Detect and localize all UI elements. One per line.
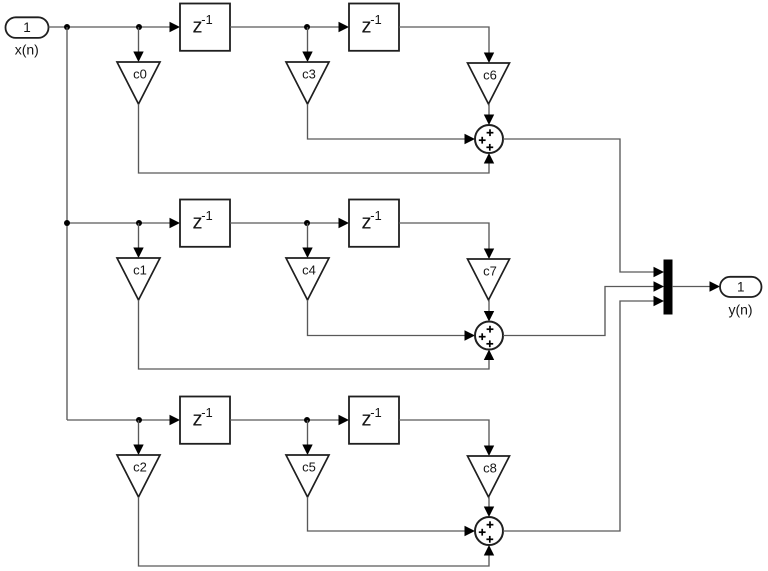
wire gain c1 to sum bottom <box>139 300 490 369</box>
arrow into sum top row3 <box>484 507 494 518</box>
arrow into gain c2 <box>133 445 143 456</box>
arrow into gain c5 <box>302 445 312 456</box>
delay block Z2 (z^-1) <box>349 4 399 51</box>
arrow into gain c6 <box>484 53 494 64</box>
wire Z2 to gain c6 <box>399 27 489 54</box>
gain c3 <box>286 62 329 104</box>
junction gain c3 tap <box>304 24 310 30</box>
gain c5 <box>286 455 329 497</box>
inport 1 (x(n) source oval) <box>6 17 49 38</box>
wire gain c6 to sum top <box>488 104 490 116</box>
delay block Z4 (z^-1) <box>349 200 399 247</box>
wire trunk to row3 <box>67 419 171 421</box>
arrow into outport <box>710 281 721 291</box>
junction gain c4 tap <box>304 220 310 226</box>
wire gain c2 to sum bottom <box>139 497 490 566</box>
arrow into delay Z2 <box>339 22 350 32</box>
svg-text:-1: -1 <box>370 12 382 27</box>
arrow into sum top row1 <box>484 115 494 126</box>
wire gain c7 to sum top <box>488 300 490 312</box>
svg-text:c1: c1 <box>133 263 147 278</box>
wire gain c4 to sum left <box>308 300 466 336</box>
wire sum S2 to mux <box>503 287 655 336</box>
arrow into delay Z3 row2 <box>170 218 181 228</box>
arrow into gain c8 <box>484 446 494 457</box>
arrow into mux port 2 <box>654 281 665 291</box>
wire inport to row1 delay <box>49 26 171 28</box>
svg-text:c0: c0 <box>133 67 147 82</box>
arrow into sum top row2 <box>484 311 494 322</box>
wire Z5 to Z6 <box>230 419 340 421</box>
gain c7 <box>468 259 510 300</box>
junction gain c1 tap <box>136 220 142 226</box>
arrow into delay Z1 row1 <box>170 22 181 32</box>
wire gain c5 to sum left <box>308 497 466 531</box>
svg-text:-1: -1 <box>201 208 213 223</box>
gain c1 <box>117 258 160 300</box>
delay block Z5 (z^-1) <box>180 397 230 444</box>
wire gain c0 to sum bottom <box>139 104 490 173</box>
delay block Z1 (z^-1) <box>180 4 230 51</box>
svg-text:-1: -1 <box>201 405 213 420</box>
arrow into sum bottom row1 <box>484 153 494 164</box>
arrow into delay Z6 <box>339 415 350 425</box>
delay block Z3 (z^-1) <box>180 200 230 247</box>
sum S2 <box>475 322 503 350</box>
wire tap to gain c3 <box>307 27 309 53</box>
arrow into delay Z4 <box>339 218 350 228</box>
wire sum S3 to mux <box>503 301 655 531</box>
wire trunk vertical <box>66 27 68 420</box>
svg-text:x(n): x(n) <box>15 42 39 58</box>
svg-text:1: 1 <box>23 20 31 35</box>
arrow into gain c4 <box>302 248 312 259</box>
gain c4 <box>286 258 329 300</box>
wire tap to gain c0 <box>138 27 140 53</box>
junction trunk row2 <box>64 220 70 226</box>
arrow into gain c1 <box>133 248 143 259</box>
svg-text:-1: -1 <box>370 405 382 420</box>
arrow into mux port 1 <box>654 267 665 277</box>
junction gain c5 tap <box>304 417 310 423</box>
svg-text:c7: c7 <box>483 264 497 279</box>
wire Z3 to Z4 <box>230 222 340 224</box>
svg-text:c6: c6 <box>483 68 497 83</box>
svg-text:c8: c8 <box>483 461 497 476</box>
wire sum S1 to mux <box>503 139 655 272</box>
mux <box>664 260 672 314</box>
sum S1 <box>475 125 503 153</box>
wire Z4 to gain c7 <box>399 223 489 250</box>
gain c6 <box>468 63 510 104</box>
svg-text:-1: -1 <box>370 208 382 223</box>
wire tap to gain c4 <box>307 223 309 249</box>
delay block Z6 (z^-1) <box>349 397 399 444</box>
junction trunk row1 <box>64 24 70 30</box>
junction gain c0 tap <box>136 24 142 30</box>
gain c2 <box>117 455 160 497</box>
gain c8 <box>468 456 510 497</box>
wire tap to gain c5 <box>307 420 309 446</box>
arrow into sum left row1 <box>465 134 476 144</box>
sum S3 <box>475 517 503 545</box>
arrow into sum left row3 <box>465 526 476 536</box>
svg-text:c3: c3 <box>302 67 316 82</box>
arrow into sum bottom row3 <box>484 545 494 556</box>
gain c0 <box>117 62 160 104</box>
wire mux to outport <box>672 286 711 288</box>
wire Z1 to Z2 <box>230 26 340 28</box>
arrow into sum bottom row2 <box>484 350 494 361</box>
arrow into gain c0 <box>133 52 143 63</box>
wire trunk to row2 <box>67 222 171 224</box>
svg-text:1: 1 <box>737 279 745 294</box>
wire tap to gain c2 <box>138 420 140 446</box>
wire tap to gain c1 <box>138 223 140 249</box>
junction gain c2 tap <box>136 417 142 423</box>
arrow into gain c3 <box>302 52 312 63</box>
svg-text:-1: -1 <box>201 12 213 27</box>
svg-text:c2: c2 <box>133 460 147 475</box>
outport 1 (y(n) sink oval) <box>720 277 762 297</box>
wire gain c8 to sum top <box>488 497 490 508</box>
arrow into sum left row2 <box>465 330 476 340</box>
wire gain c3 to sum left <box>308 104 466 139</box>
svg-text:c5: c5 <box>302 460 316 475</box>
wire Z6 to gain c8 <box>399 420 489 447</box>
arrow into gain c7 <box>484 249 494 260</box>
svg-text:y(n): y(n) <box>728 302 752 318</box>
arrow into mux port 3 <box>654 296 665 306</box>
arrow into delay Z5 row3 <box>170 415 181 425</box>
svg-text:c4: c4 <box>302 263 316 278</box>
